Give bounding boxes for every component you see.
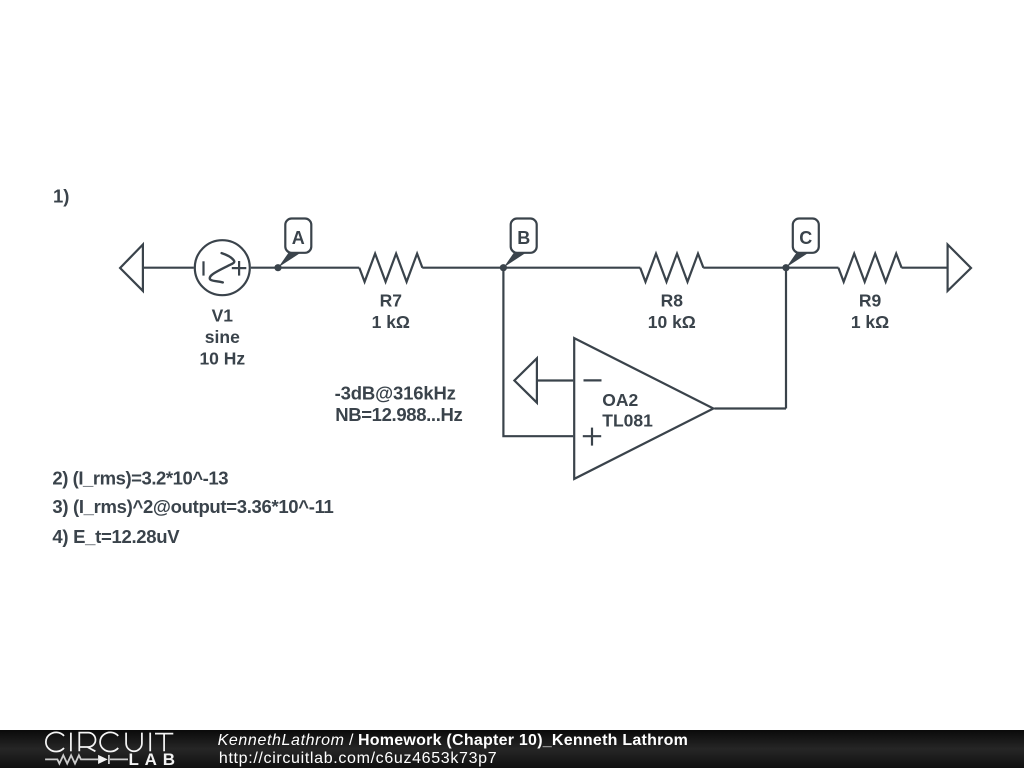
svg-text:B: B xyxy=(517,228,530,248)
svg-text:KennethLathrom / Homework (Cha: KennethLathrom / Homework (Chapter 10)_K… xyxy=(218,732,689,749)
svg-text:10 Hz: 10 Hz xyxy=(199,349,245,369)
resistor R9 xyxy=(838,254,901,282)
net flag right xyxy=(948,245,971,291)
net flag left xyxy=(120,245,143,291)
wire xyxy=(714,407,786,409)
voltage source V1 xyxy=(195,240,250,295)
wire xyxy=(251,267,359,269)
svg-text:1 kΩ: 1 kΩ xyxy=(851,312,889,332)
annotation 1) xyxy=(52,185,462,546)
svg-text:C: C xyxy=(799,228,812,248)
op-amp OA2 xyxy=(574,338,713,479)
svg-text:R9: R9 xyxy=(859,290,882,310)
svg-text:OA2: OA2 xyxy=(602,390,638,410)
svg-text:4) E_t=12.28uV: 4) E_t=12.28uV xyxy=(52,526,180,547)
svg-text:http://circuitlab.com/c6uz4653: http://circuitlab.com/c6uz4653k73p7 xyxy=(219,750,497,767)
wire xyxy=(503,268,573,437)
svg-text:sine: sine xyxy=(205,327,240,347)
node C xyxy=(782,264,789,271)
svg-text:2) (I_rms)=3.2*10^-13: 2) (I_rms)=3.2*10^-13 xyxy=(52,467,228,488)
label V1 value xyxy=(199,306,245,369)
wire xyxy=(703,267,838,269)
op-amp inverting input minus sign xyxy=(584,379,602,381)
resistor R7 xyxy=(359,254,422,282)
node B xyxy=(500,264,507,271)
wire xyxy=(902,267,948,269)
svg-text:R7: R7 xyxy=(380,290,402,310)
footer bar xyxy=(0,730,1024,768)
resistor R8 xyxy=(640,254,703,282)
logo diode xyxy=(98,755,108,764)
svg-text:-3dB@316kHz: -3dB@316kHz xyxy=(335,382,456,403)
svg-text:1 kΩ: 1 kΩ xyxy=(372,312,410,332)
wire xyxy=(785,268,787,409)
svg-text:10 kΩ: 10 kΩ xyxy=(648,312,696,332)
op-amp non-inverting input plus sign xyxy=(583,435,601,437)
svg-text:3) (I_rms)^2@output=3.36*10^-1: 3) (I_rms)^2@output=3.36*10^-11 xyxy=(52,496,333,517)
net flag op-amp minus input xyxy=(514,358,537,402)
svg-text:A: A xyxy=(292,228,305,248)
node A xyxy=(274,264,281,271)
svg-text:NB=12.988...Hz: NB=12.988...Hz xyxy=(335,404,462,425)
logo CIRCUIT xyxy=(46,732,173,751)
svg-text:LAB: LAB xyxy=(129,750,181,768)
wire xyxy=(143,267,194,269)
wire xyxy=(422,267,640,269)
logo schematic line xyxy=(45,755,128,764)
wire xyxy=(537,379,573,381)
svg-text:TL081: TL081 xyxy=(602,411,653,431)
svg-text:V1: V1 xyxy=(212,306,234,326)
svg-text:R8: R8 xyxy=(661,290,684,310)
svg-text:1): 1) xyxy=(53,185,69,206)
